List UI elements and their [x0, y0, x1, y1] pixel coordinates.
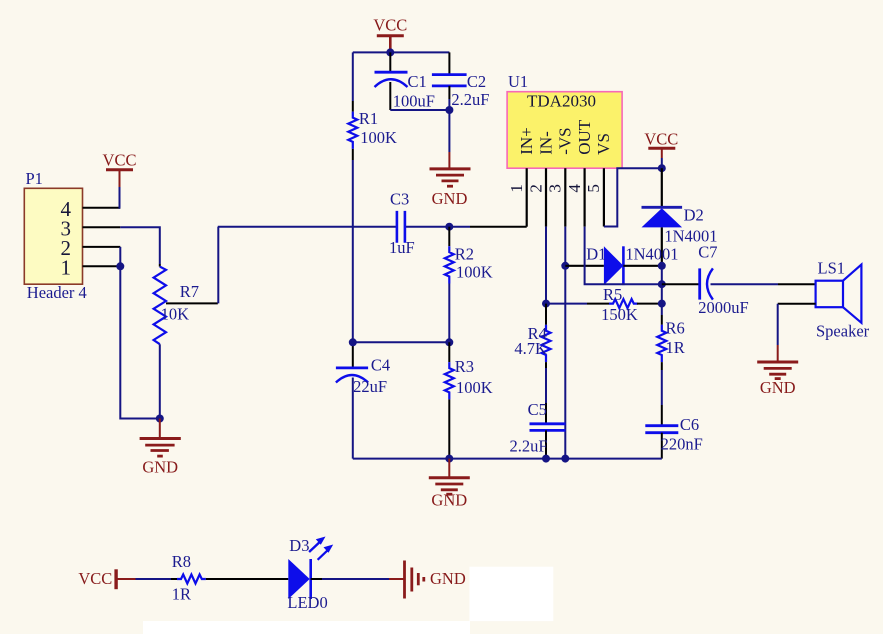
junction OUT node [658, 280, 666, 288]
capacitor C1 [375, 52, 427, 110]
resistor R7 [154, 264, 199, 344]
svg-text:100K: 100K [456, 262, 493, 281]
junction C5 bottom [542, 455, 550, 463]
wire IN- pin2 down [545, 227, 547, 304]
junction R7 ground [156, 415, 164, 423]
svg-text:C4: C4 [371, 356, 390, 375]
svg-text:GND: GND [142, 458, 178, 477]
svg-text:R3: R3 [455, 357, 474, 376]
svg-text:100K: 100K [360, 128, 397, 147]
pin 1 [507, 168, 527, 227]
wire P1 pin3 to R7 top [120, 227, 160, 264]
resistor R2 [445, 227, 493, 343]
svg-text:D1: D1 [586, 244, 606, 263]
svg-text:U1: U1 [508, 72, 528, 91]
svg-text:22uF: 22uF [353, 377, 387, 396]
svg-text:D2: D2 [684, 205, 704, 224]
wire C2 to ground [448, 99, 450, 152]
svg-text:150K: 150K [601, 305, 638, 324]
wire R4 to C5 [545, 368, 547, 403]
svg-text:GND: GND [432, 189, 468, 208]
svg-text:IN-: IN- [536, 131, 555, 155]
svg-text:R1: R1 [359, 109, 378, 128]
svg-text:Speaker: Speaker [816, 322, 870, 341]
wire C7 to speaker [711, 283, 779, 285]
capacitor C3 [389, 190, 415, 257]
junction R5 left [542, 300, 550, 308]
wire R8 to D3 [206, 578, 277, 580]
ground GND (bottom row) [405, 561, 466, 599]
svg-text:TDA2030: TDA2030 [527, 92, 596, 111]
capacitor C2 [432, 52, 490, 109]
svg-text:C3: C3 [390, 190, 409, 209]
svg-text:LS1: LS1 [818, 259, 846, 278]
ground GND (speaker) [757, 345, 798, 397]
wire R6 to C6 [661, 370, 663, 405]
capacitor C4 [336, 342, 390, 458]
svg-text:1R: 1R [666, 338, 685, 357]
svg-text:VCC: VCC [78, 569, 112, 588]
junction pin3 bottom [561, 455, 569, 463]
capacitor C5 [509, 400, 565, 459]
svg-text:C7: C7 [698, 243, 717, 262]
svg-text:R7: R7 [180, 282, 199, 301]
svg-text:Header 4: Header 4 [27, 283, 87, 302]
wire pin3 down [564, 227, 566, 459]
wire right column [661, 266, 663, 315]
svg-text:2000uF: 2000uF [698, 298, 748, 317]
wire bottom rail [353, 458, 662, 460]
svg-text:2: 2 [526, 184, 545, 193]
power VCC (P1) [103, 151, 137, 187]
svg-text:C6: C6 [680, 415, 699, 434]
op-amp U1 TDA2030 [507, 72, 622, 168]
junction VCC rail [658, 164, 666, 172]
svg-text:5: 5 [584, 184, 603, 193]
svg-text:1R: 1R [172, 584, 191, 603]
resistor R3 [445, 342, 493, 458]
wire C4 to R2/R3 node [353, 341, 450, 343]
svg-text:R5: R5 [603, 285, 622, 304]
resistor R6 [657, 315, 684, 370]
wire VCC stem [661, 158, 663, 168]
wire R7 bottom to ground [159, 344, 161, 418]
ground GND (R7) [140, 419, 181, 477]
svg-text:GND: GND [430, 569, 466, 588]
capacitor C7 [662, 243, 749, 318]
LED D3 [287, 536, 333, 612]
svg-text:C2: C2 [467, 72, 486, 91]
wire R7 wiper to signal node [166, 302, 218, 304]
resistor R1 [348, 101, 397, 160]
svg-text:1: 1 [61, 256, 72, 280]
svg-text:VCC: VCC [373, 16, 407, 35]
junction R2 top [445, 223, 453, 231]
svg-text:2.2uF: 2.2uF [509, 437, 547, 456]
svg-text:C1: C1 [408, 72, 427, 91]
svg-text:1uF: 1uF [389, 238, 415, 257]
diode D2 1N4001 [642, 168, 718, 265]
junction R5 right [658, 300, 666, 308]
ground GND (mid) [429, 459, 470, 510]
wire top rail [353, 52, 450, 101]
wire speaker return [778, 303, 816, 305]
svg-text:3: 3 [546, 184, 565, 193]
svg-text:2.2uF: 2.2uF [451, 90, 489, 109]
svg-text:-VS: -VS [556, 127, 575, 154]
svg-text:OUT: OUT [575, 119, 594, 155]
svg-text:4.7K: 4.7K [514, 339, 547, 358]
junction pin3 / D1 [561, 262, 569, 270]
svg-text:C5: C5 [528, 400, 547, 419]
svg-text:IN+: IN+ [517, 127, 536, 155]
connector P1 [24, 169, 120, 302]
svg-text:R8: R8 [172, 552, 191, 571]
wire R1 bottom to C4 node [352, 160, 354, 342]
ground GND (top) [430, 152, 471, 208]
svg-text:VS: VS [594, 133, 613, 155]
wire main signal horizontal [218, 226, 470, 228]
junction C2 bottom [445, 106, 453, 114]
resistor R4 [514, 304, 550, 368]
svg-text:P1: P1 [26, 169, 43, 188]
speaker LS1 [816, 259, 870, 341]
power VCC (bottom row) [78, 569, 135, 589]
svg-text:4: 4 [565, 184, 584, 193]
svg-text:VCC: VCC [103, 151, 137, 170]
svg-text:1N4001: 1N4001 [625, 244, 678, 263]
pin 3 [546, 168, 566, 226]
resistor R5 [546, 285, 662, 324]
junction D1 cathode [658, 262, 666, 270]
wire pin5 to VCC rail [604, 168, 662, 226]
junction R2/R3 node [445, 338, 453, 346]
svg-text:100K: 100K [456, 378, 493, 397]
pin 4 [565, 168, 585, 226]
svg-text:R2: R2 [455, 244, 474, 263]
wire VCC to P1 pin4 [119, 187, 122, 208]
wire P1 pins 1,2 to ground rail [120, 247, 160, 419]
junction C4 top [349, 338, 357, 346]
resistor R8 [172, 552, 206, 603]
pin 5 [584, 168, 604, 226]
pin 2 [526, 168, 546, 226]
svg-text:R6: R6 [666, 318, 685, 337]
diode D1 1N4001 [565, 244, 678, 285]
junction bottom rail R3 [445, 455, 453, 463]
svg-text:10K: 10K [161, 305, 190, 324]
wire D3 to GND [311, 578, 322, 580]
svg-text:1: 1 [507, 184, 526, 193]
svg-text:D3: D3 [289, 536, 309, 555]
svg-text:GND: GND [760, 378, 796, 397]
svg-text:100uF: 100uF [393, 91, 435, 110]
junction top VCC [386, 48, 394, 56]
power VCC (right) [644, 130, 678, 159]
svg-text:GND: GND [431, 491, 467, 510]
junction P1 pin1 [116, 262, 124, 270]
wire OUT pin4 [585, 227, 662, 285]
wire C1 bottom link [390, 109, 449, 111]
svg-text:LED0: LED0 [287, 593, 327, 612]
capacitor C6 [645, 415, 702, 459]
svg-text:VCC: VCC [644, 130, 678, 149]
wire VCC to R8 [136, 578, 172, 580]
power VCC (top) [373, 16, 407, 53]
svg-text:220nF: 220nF [661, 435, 703, 454]
